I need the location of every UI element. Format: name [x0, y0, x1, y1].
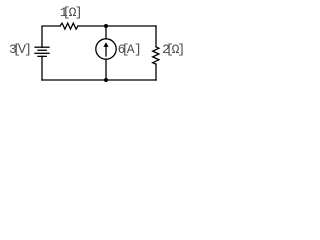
- current source arrow head: [103, 42, 108, 47]
- svg-text:2[Ω]: 2[Ω]: [162, 42, 185, 57]
- junction dot top node: [104, 24, 108, 28]
- wire left bottom segment: [41, 56, 43, 80]
- wire current-source top stub: [105, 26, 107, 39]
- svg-text:3[V]: 3[V]: [9, 42, 32, 57]
- battery V1 3[V] plates: [35, 47, 49, 56]
- wire current-source bottom stub: [105, 59, 107, 80]
- svg-text:1[Ω]: 1[Ω]: [60, 5, 83, 20]
- resistor R2 2[Ω] vertical zigzag: [153, 47, 159, 64]
- wire top-right segment: [78, 25, 156, 27]
- current source I1 circle: [96, 39, 116, 59]
- wire right top segment: [155, 26, 157, 47]
- wire bottom: [42, 79, 156, 81]
- junction dot bottom node: [104, 78, 108, 82]
- wire right bottom segment: [155, 64, 157, 80]
- wire top-left segment: [42, 26, 60, 47]
- current source arrow shaft: [105, 46, 107, 56]
- svg-text:6[A]: 6[A]: [118, 42, 142, 57]
- resistor R1 1[Ω] horizontal zigzag: [60, 23, 78, 29]
